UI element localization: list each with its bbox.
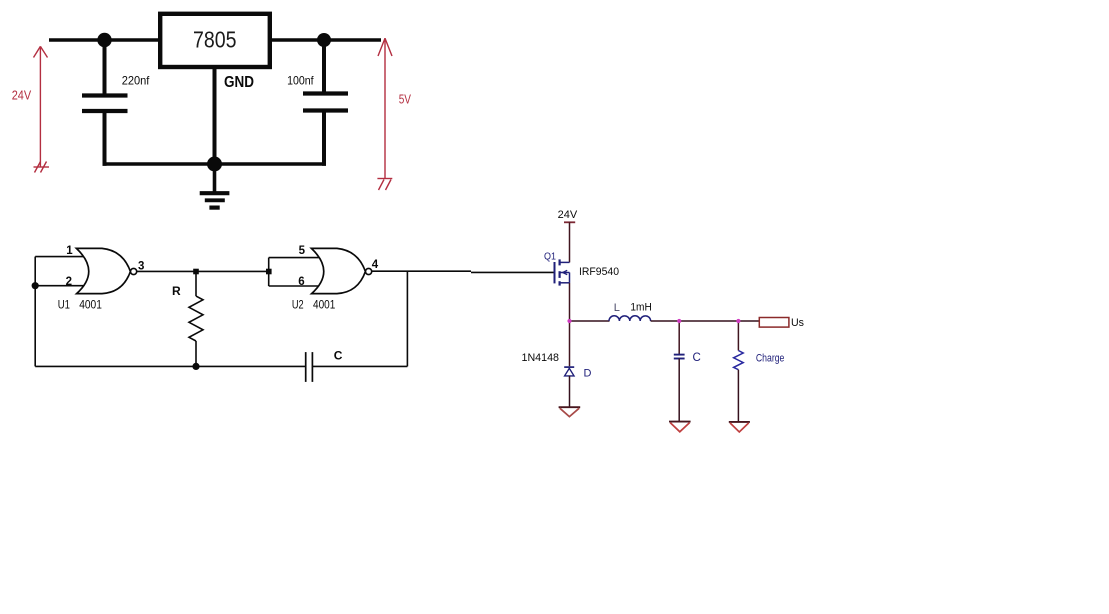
- wire output top: [272, 38, 381, 42]
- label C output: [693, 352, 701, 364]
- transistor Q1 IRF9540 (P-MOSFET): [555, 259, 570, 285]
- svg-text:C: C: [693, 352, 701, 364]
- node U1 input junction: [32, 282, 39, 289]
- label pin 4: [372, 259, 379, 271]
- wire left feedback vertical: [34, 257, 36, 367]
- wire C1 bottom lead: [103, 112, 107, 166]
- wire diode to ground: [569, 376, 571, 407]
- ground diode (red triangle): [559, 407, 581, 416]
- svg-text:4: 4: [372, 259, 379, 271]
- regulator U 7805: [160, 14, 270, 67]
- node R top junction (square): [193, 269, 199, 275]
- svg-text:4001: 4001: [79, 298, 102, 312]
- label pin 5: [299, 245, 306, 257]
- svg-text:1: 1: [66, 245, 73, 257]
- label Charge: [756, 352, 785, 364]
- resistor Us output box: [759, 318, 789, 328]
- wire to charge resistor: [737, 321, 739, 351]
- label D: [584, 368, 592, 380]
- svg-text:24V: 24V: [12, 89, 32, 103]
- wire to diode D: [569, 321, 571, 366]
- label C: [334, 348, 343, 362]
- node drain junction: [567, 319, 571, 323]
- ground symbol (earth bars): [200, 193, 230, 207]
- node output junction: [317, 33, 331, 47]
- svg-text:4001: 4001: [313, 298, 335, 312]
- diode D 1N4148: [564, 367, 574, 376]
- svg-text:R: R: [172, 284, 181, 298]
- wire bottom feedback left: [35, 365, 306, 367]
- svg-text:Us: Us: [791, 317, 804, 329]
- inductor L 1mH: [609, 316, 651, 321]
- wire U2 out to gate: [372, 271, 555, 272]
- node ground junction: [207, 157, 222, 172]
- node C junction: [677, 319, 681, 323]
- wire C1 top lead: [103, 40, 107, 94]
- wire feedback branch vertical: [406, 271, 408, 366]
- label 1N4148: [522, 352, 560, 364]
- label pin 1: [66, 245, 73, 257]
- node 24V input arrow (red): [34, 46, 50, 172]
- label R: [172, 284, 181, 298]
- label U2 4001: [292, 298, 336, 312]
- svg-text:GND: GND: [224, 74, 254, 91]
- node R bottom junction: [192, 363, 199, 370]
- svg-text:7805: 7805: [193, 26, 237, 52]
- label U1 4001: [58, 298, 102, 312]
- svg-text:5V: 5V: [399, 92, 412, 106]
- capacitor C2 100nf: [303, 94, 348, 111]
- svg-text:D: D: [584, 368, 592, 380]
- capacitor C1 220nf: [82, 96, 128, 112]
- wire U1 pin2: [35, 285, 84, 287]
- op-amp U2 NOR gate body: [311, 248, 371, 293]
- svg-text:IRF9540: IRF9540: [579, 266, 619, 278]
- wire GND pin stem: [213, 67, 217, 164]
- label pin 6: [298, 276, 304, 288]
- svg-text:24V: 24V: [558, 209, 578, 221]
- wire Q1 drain down: [569, 283, 571, 321]
- wire U2 input bracket: [269, 258, 319, 286]
- wire bottom feedback right: [312, 365, 407, 367]
- label 24V: [12, 89, 32, 103]
- node U2 input junction (square): [266, 269, 272, 275]
- svg-text:100nf: 100nf: [287, 74, 314, 88]
- svg-text:U1: U1: [58, 298, 70, 312]
- label GND: [224, 74, 254, 91]
- power 24V rail tick: [564, 221, 575, 223]
- wire U1 pin1: [35, 256, 84, 258]
- svg-text:1mH: 1mH: [630, 301, 651, 313]
- label 220nf: [122, 74, 150, 88]
- label Q1: [544, 251, 556, 263]
- label IRF9540: [579, 266, 619, 278]
- label Us: [791, 317, 804, 329]
- label pin 2: [66, 276, 72, 288]
- label 100nf: [287, 74, 314, 88]
- svg-text:U2: U2: [292, 298, 304, 312]
- wire to capacitor C out: [678, 321, 680, 354]
- svg-text:Q1: Q1: [544, 251, 556, 263]
- svg-text:1N4148: 1N4148: [522, 352, 560, 364]
- capacitor C output: [674, 355, 685, 359]
- wire inductor to Us: [651, 320, 760, 322]
- svg-text:6: 6: [298, 276, 304, 288]
- wire ground stem: [213, 164, 217, 192]
- wire bottom return: [103, 162, 327, 166]
- resistor R: [189, 274, 203, 364]
- op-amp U1 NOR gate body: [76, 248, 136, 293]
- node charge junction: [736, 319, 740, 323]
- svg-text:L: L: [614, 302, 620, 314]
- wire input top: [49, 38, 160, 42]
- svg-text:2: 2: [66, 276, 72, 288]
- resistor Charge: [734, 351, 744, 370]
- svg-text:3: 3: [138, 260, 144, 272]
- label 24V supply: [558, 209, 578, 221]
- wire charge to ground: [737, 370, 739, 422]
- ground charge (red triangle): [729, 422, 750, 432]
- svg-text:C: C: [334, 348, 343, 362]
- svg-text:220nf: 220nf: [122, 74, 150, 88]
- wire 24V to Q1 source: [569, 222, 571, 262]
- wire U1 out to U2 in: [137, 270, 267, 272]
- label 1mH: [630, 301, 651, 313]
- wire C to ground: [678, 359, 680, 422]
- wire C2 top lead: [322, 40, 326, 92]
- label L: [614, 302, 620, 314]
- label 5V: [399, 92, 412, 106]
- label pin 3: [138, 260, 144, 272]
- node 5V output arrow (red): [377, 38, 392, 190]
- svg-text:Charge: Charge: [756, 352, 785, 364]
- wire drain to inductor: [570, 320, 610, 322]
- svg-text:5: 5: [299, 245, 306, 257]
- node input junction: [97, 33, 111, 47]
- capacitor C (series): [306, 352, 313, 382]
- wire C2 bottom lead: [322, 112, 326, 166]
- ground C (red triangle): [669, 422, 691, 432]
